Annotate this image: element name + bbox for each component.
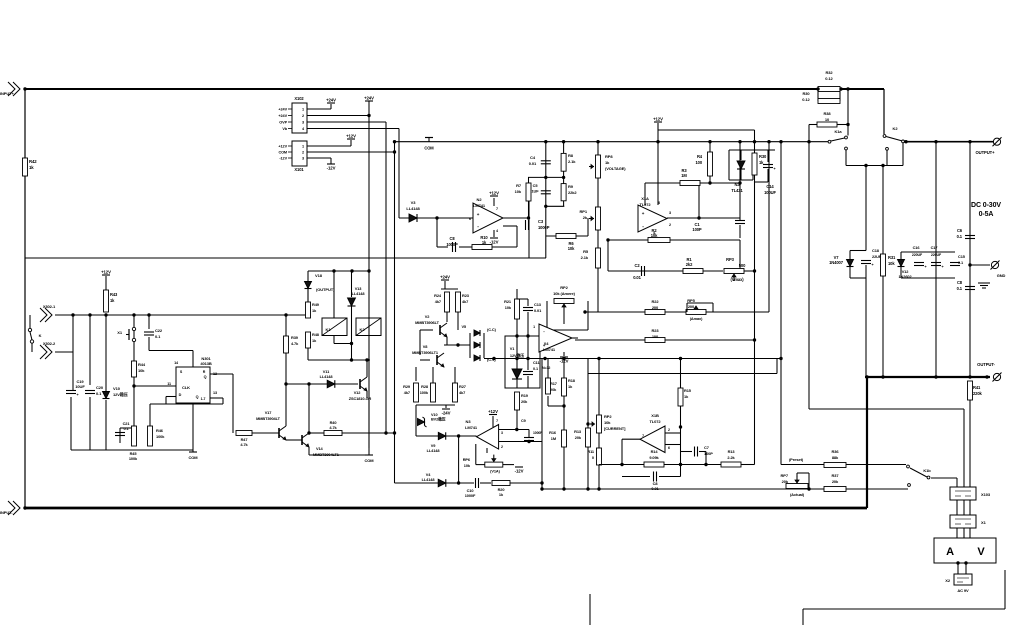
svg-text:RP2: RP2 — [560, 285, 568, 290]
svg-text:R36: R36 — [831, 449, 839, 454]
svg-text:0.12: 0.12 — [825, 76, 833, 81]
svg-text:10k: 10k — [888, 261, 895, 266]
svg-text:-12V: -12V — [560, 359, 569, 364]
svg-text:R29: R29 — [403, 384, 411, 389]
svg-text:R17: R17 — [550, 381, 557, 386]
svg-text:3: 3 — [501, 431, 503, 435]
svg-text:MMBT3904LT: MMBT3904LT — [256, 416, 281, 421]
svg-text:1000P: 1000P — [538, 225, 550, 230]
svg-text:C17: C17 — [931, 245, 938, 250]
svg-text:V17: V17 — [265, 410, 272, 415]
svg-text:2: 2 — [501, 445, 503, 449]
svg-text:10k: 10k — [515, 189, 522, 194]
svg-text:2: 2 — [302, 151, 304, 155]
svg-text:Vb: Vb — [282, 127, 287, 131]
svg-text:R15: R15 — [684, 388, 692, 393]
svg-text:11: 11 — [167, 382, 171, 386]
svg-text:0.01: 0.01 — [534, 308, 542, 313]
svg-text:10k: 10k — [138, 368, 145, 373]
svg-text:0.1: 0.1 — [957, 286, 963, 291]
svg-text:0.1: 0.1 — [96, 391, 102, 396]
svg-text:V10: V10 — [431, 413, 437, 417]
svg-text:R30: R30 — [802, 91, 810, 96]
svg-text:(Actual): (Actual) — [790, 492, 805, 497]
svg-text:R37: R37 — [831, 473, 839, 478]
svg-text:X1B: X1B — [651, 413, 659, 418]
svg-text:2.1k: 2.1k — [568, 159, 576, 164]
svg-text:4k7: 4k7 — [462, 299, 468, 304]
svg-text:TL072: TL072 — [649, 419, 661, 424]
svg-text:88k: 88k — [832, 455, 839, 460]
svg-text:1UF: 1UF — [531, 189, 539, 194]
svg-text:R30: R30 — [759, 154, 767, 159]
svg-text:R42: R42 — [29, 159, 37, 164]
svg-text:OUTPUT+: OUTPUT+ — [976, 150, 996, 155]
svg-text:20k: 20k — [575, 435, 582, 440]
svg-text:RP5: RP5 — [687, 298, 695, 303]
svg-text:C2: C2 — [634, 263, 640, 268]
svg-text:R23: R23 — [462, 293, 470, 298]
svg-text:INPUT-: INPUT- — [0, 510, 13, 515]
svg-text:R13: R13 — [574, 429, 582, 434]
svg-text:0.1: 0.1 — [533, 367, 538, 371]
svg-text:+12V: +12V — [346, 134, 356, 139]
svg-text:COM: COM — [278, 151, 287, 155]
svg-text:0.01: 0.01 — [529, 161, 537, 166]
svg-text:R11: R11 — [587, 449, 595, 454]
svg-text:C3: C3 — [538, 219, 544, 224]
svg-text:R4: R4 — [697, 154, 703, 159]
svg-text:1k: 1k — [29, 165, 34, 170]
svg-text:C11: C11 — [533, 361, 539, 365]
svg-text:(OUTPUT): (OUTPUT) — [316, 287, 335, 292]
svg-text:C22: C22 — [155, 328, 163, 333]
svg-text:1: 1 — [302, 108, 304, 112]
svg-text:N3: N3 — [466, 419, 472, 424]
svg-text:(V1A): (V1A) — [490, 469, 500, 474]
svg-text:R46: R46 — [156, 428, 164, 433]
svg-text:100k: 100k — [420, 390, 429, 395]
svg-text:GND: GND — [997, 273, 1006, 278]
svg-text:+12V: +12V — [489, 191, 499, 196]
svg-text:+24V: +24V — [278, 114, 287, 118]
svg-text:10k: 10k — [651, 233, 658, 238]
svg-text:R44: R44 — [138, 362, 146, 367]
svg-text:R23: R23 — [651, 328, 659, 333]
svg-text:10k: 10k — [568, 246, 575, 251]
svg-text:C8: C8 — [957, 280, 963, 285]
svg-text:10UF: 10UF — [75, 384, 85, 389]
svg-text:C14: C14 — [766, 184, 774, 189]
svg-text:R48: R48 — [312, 332, 320, 337]
svg-text:ZSC1810-GR: ZSC1810-GR — [349, 396, 372, 401]
svg-text:20k: 20k — [832, 479, 839, 484]
svg-text:0-5A: 0-5A — [979, 211, 994, 218]
svg-text:22k2: 22k2 — [568, 190, 577, 195]
svg-text:COM: COM — [424, 146, 434, 151]
svg-text:CLK: CLK — [182, 385, 190, 390]
svg-text:100k: 100k — [156, 434, 165, 439]
svg-text:RP1: RP1 — [580, 209, 588, 214]
svg-text:K: K — [39, 333, 42, 338]
svg-text:20k: 20k — [782, 479, 789, 484]
svg-text:20k: 20k — [550, 387, 557, 392]
svg-text:1000F: 1000F — [465, 493, 476, 498]
svg-text:X103: X103 — [981, 492, 991, 497]
svg-text:C16: C16 — [913, 245, 921, 250]
svg-text:1N2602: 1N2602 — [898, 274, 912, 279]
svg-text:3: 3 — [669, 211, 671, 215]
svg-text:R24: R24 — [434, 293, 442, 298]
svg-text:10k (Amere): 10k (Amere) — [553, 291, 576, 296]
svg-text:12V稳压: 12V稳压 — [113, 391, 128, 397]
svg-text:(VOLTAGE): (VOLTAGE) — [605, 166, 626, 171]
svg-text:R16: R16 — [549, 430, 557, 435]
svg-text:0.01: 0.01 — [633, 275, 641, 280]
svg-text:R28: R28 — [421, 384, 429, 389]
svg-text:RP2: RP2 — [604, 414, 612, 419]
svg-text:R7: R7 — [516, 183, 522, 188]
svg-text:N3: N3 — [734, 182, 740, 187]
svg-text:20k: 20k — [521, 399, 528, 404]
svg-text:(C.C): (C.C) — [487, 327, 497, 332]
svg-text:C6: C6 — [957, 228, 963, 233]
svg-text:COM: COM — [364, 458, 374, 463]
svg-text:9.09k: 9.09k — [649, 455, 659, 460]
svg-text:+12V: +12V — [278, 145, 287, 149]
svg-text:4k7: 4k7 — [404, 390, 410, 395]
svg-text:6: 6 — [469, 217, 471, 221]
svg-text:X101: X101 — [294, 167, 304, 172]
svg-text:4013B: 4013B — [200, 361, 211, 366]
svg-text:200: 200 — [688, 304, 695, 309]
svg-text:+12V: +12V — [101, 270, 111, 275]
svg-text:LL4148: LL4148 — [320, 374, 334, 379]
svg-text:K1b: K1b — [923, 468, 931, 473]
svg-text:100P: 100P — [692, 227, 702, 232]
svg-text:220UF: 220UF — [912, 253, 923, 257]
svg-text:K2: K2 — [360, 327, 366, 332]
svg-text:100: 100 — [695, 160, 702, 165]
svg-text:C7: C7 — [704, 445, 709, 450]
svg-text:220k: 220k — [973, 391, 983, 396]
svg-text:A: A — [946, 546, 954, 558]
svg-text:R32: R32 — [825, 70, 833, 75]
svg-text:0.12: 0.12 — [802, 97, 810, 102]
svg-text:2: 2 — [302, 114, 304, 118]
svg-text:K1a: K1a — [834, 129, 842, 134]
svg-text:1M: 1M — [681, 173, 687, 178]
svg-text:C8: C8 — [449, 236, 455, 241]
svg-text:[CURRENT]: [CURRENT] — [604, 426, 626, 431]
svg-text:1-7: 1-7 — [201, 397, 206, 401]
svg-text:INPUT+: INPUT+ — [0, 91, 15, 96]
svg-text:7: 7 — [642, 434, 644, 438]
svg-text:3: 3 — [302, 157, 304, 161]
svg-text:+12V: +12V — [653, 117, 663, 122]
svg-text:R13: R13 — [728, 449, 736, 454]
svg-text:4.7k: 4.7k — [240, 442, 248, 447]
svg-text:C20: C20 — [96, 385, 104, 390]
svg-text:R38: R38 — [823, 111, 831, 116]
svg-text:0.1: 0.1 — [957, 234, 963, 239]
svg-text:LL4148: LL4148 — [427, 448, 441, 453]
svg-text:2k2: 2k2 — [686, 262, 693, 267]
svg-text:LL4148: LL4148 — [352, 291, 366, 296]
svg-text:N=12: N=12 — [542, 366, 550, 370]
svg-text:MMBT3906LT: MMBT3906LT — [415, 320, 440, 325]
svg-text:+24V: +24V — [440, 275, 450, 280]
svg-text:220UF: 220UF — [931, 253, 942, 257]
svg-text:C15: C15 — [958, 254, 966, 259]
svg-text:200: 200 — [652, 305, 659, 310]
svg-text:2.1k: 2.1k — [581, 255, 589, 260]
svg-text:1N4007: 1N4007 — [829, 260, 844, 265]
svg-text:0.1: 0.1 — [155, 334, 161, 339]
svg-text:13: 13 — [213, 391, 217, 395]
svg-text:R8: R8 — [568, 153, 574, 158]
svg-text:R18: R18 — [568, 378, 576, 383]
svg-text:10k: 10k — [604, 420, 611, 425]
svg-text:R5: R5 — [583, 249, 589, 254]
svg-text:C4: C4 — [530, 155, 536, 160]
svg-text:1: 1 — [533, 325, 535, 329]
svg-text:+12V: +12V — [488, 409, 498, 414]
svg-text:+24V: +24V — [364, 96, 374, 101]
svg-text:R39: R39 — [291, 335, 299, 340]
svg-text:C13: C13 — [534, 302, 542, 307]
svg-text:100: 100 — [652, 334, 659, 339]
svg-text:2: 2 — [669, 223, 671, 227]
svg-text:R43: R43 — [110, 292, 118, 297]
svg-text:+24V: +24V — [278, 108, 287, 112]
svg-text:X102: X102 — [294, 96, 304, 101]
svg-text:Q: Q — [204, 375, 207, 379]
svg-text:2.2k: 2.2k — [727, 455, 735, 460]
svg-text:N2: N2 — [477, 197, 483, 202]
svg-text:OVP: OVP — [279, 121, 287, 125]
svg-text:TL431: TL431 — [731, 188, 743, 193]
svg-text:OUTPUT-: OUTPUT- — [977, 362, 995, 367]
svg-text:DC 0-30V: DC 0-30V — [971, 202, 1001, 209]
svg-text:3: 3 — [302, 121, 304, 125]
svg-text:10k: 10k — [505, 305, 512, 310]
svg-text:R14: R14 — [651, 449, 659, 454]
svg-text:K2: K2 — [893, 126, 899, 131]
svg-text:100k: 100k — [129, 456, 138, 461]
svg-text:LL4148: LL4148 — [406, 206, 420, 211]
svg-text:LM741: LM741 — [473, 203, 486, 208]
svg-text:MMBT3906LT1: MMBT3906LT1 — [412, 350, 439, 355]
svg-text:BV2稳压: BV2稳压 — [431, 417, 446, 422]
svg-text:+24V: +24V — [326, 98, 336, 103]
svg-text:LL4148: LL4148 — [422, 477, 436, 482]
svg-text:K1: K1 — [326, 327, 332, 332]
svg-text:7: 7 — [496, 207, 498, 211]
svg-text:C9: C9 — [521, 419, 526, 423]
svg-text:RP6: RP6 — [463, 457, 471, 462]
svg-text:(Vmax): (Vmax) — [730, 277, 744, 282]
svg-text:500: 500 — [739, 263, 746, 268]
svg-text:V12: V12 — [354, 390, 362, 395]
svg-text:2: 2 — [668, 428, 670, 432]
svg-text:4k7: 4k7 — [435, 299, 441, 304]
svg-text:R27: R27 — [459, 384, 466, 389]
svg-text:RP8: RP8 — [605, 154, 613, 159]
svg-text:V14: V14 — [316, 446, 324, 451]
svg-text:(Preset): (Preset) — [789, 457, 804, 462]
svg-text:-12V: -12V — [490, 240, 499, 245]
svg-text:R19: R19 — [521, 393, 529, 398]
svg-text:1: 1 — [302, 145, 304, 149]
svg-text:R21: R21 — [504, 299, 512, 304]
svg-text:6: 6 — [668, 446, 670, 450]
svg-text:R22: R22 — [651, 299, 659, 304]
svg-text:-24V: -24V — [442, 411, 451, 416]
svg-text:LM741: LM741 — [465, 425, 478, 430]
svg-text:4.7k: 4.7k — [329, 425, 337, 430]
svg-text:100UF: 100UF — [764, 190, 776, 195]
svg-text:R31: R31 — [888, 255, 896, 260]
svg-text:4k7: 4k7 — [459, 390, 465, 395]
svg-text:4.7k: 4.7k — [291, 341, 299, 346]
svg-text:(Amax): (Amax) — [690, 316, 703, 321]
svg-text:1M: 1M — [551, 436, 556, 441]
svg-text:R41: R41 — [973, 385, 981, 390]
svg-text:D: D — [179, 393, 182, 397]
svg-text:R49: R49 — [312, 302, 320, 307]
svg-text:10k: 10k — [464, 463, 471, 468]
svg-text:C18: C18 — [872, 248, 880, 253]
svg-text:RP7: RP7 — [781, 473, 789, 478]
svg-text:-12V: -12V — [279, 157, 287, 161]
svg-text:7: 7 — [496, 419, 498, 423]
svg-text:0: 0 — [592, 455, 594, 460]
svg-text:COM: COM — [188, 455, 198, 460]
svg-text:V10: V10 — [113, 386, 121, 391]
svg-text:V: V — [977, 546, 985, 558]
svg-text:AC 9V: AC 9V — [957, 588, 969, 593]
svg-text:-12V: -12V — [515, 469, 524, 474]
svg-text:V18: V18 — [315, 273, 323, 278]
svg-text:1000P: 1000P — [446, 242, 458, 247]
svg-text:R9: R9 — [568, 184, 574, 189]
svg-text:Q: Q — [196, 395, 199, 399]
svg-text:-12V: -12V — [327, 166, 336, 171]
svg-text:RP3: RP3 — [726, 257, 734, 262]
